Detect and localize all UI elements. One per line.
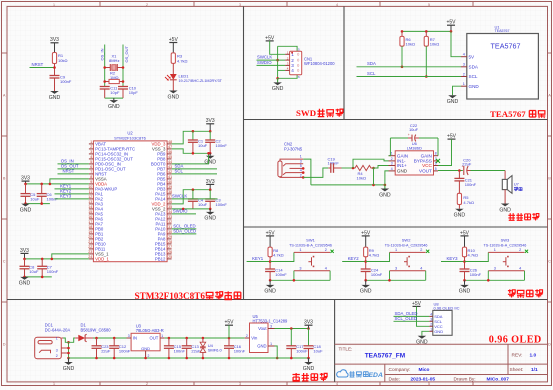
wire net OS_OUT (mcu) <box>58 164 89 169</box>
section title key circuit <box>508 289 543 297</box>
svg-text:3: 3 <box>270 324 272 328</box>
svg-text:22: 22 <box>88 245 92 249</box>
svg-text:34: 34 <box>168 210 172 214</box>
power 3V3 (reset) <box>50 37 59 52</box>
svg-text:KEY1: KEY1 <box>252 256 264 261</box>
svg-text:4: 4 <box>420 267 422 271</box>
net label OS_IN vertical <box>100 48 105 60</box>
power 3V3 (VDDA) <box>21 176 30 184</box>
wire net SDA_OLED (mcu) <box>172 229 197 234</box>
svg-text:+: + <box>462 164 464 168</box>
svg-text:33: 33 <box>168 215 172 219</box>
ground (KEY1) <box>264 280 276 294</box>
svg-text:Date:: Date: <box>389 376 400 382</box>
IC U3 78L05 <box>127 324 165 358</box>
svg-text:VCC: VCC <box>422 163 432 168</box>
svg-text:32: 32 <box>168 220 172 224</box>
section divider horizontal audio/keys <box>244 226 548 228</box>
wire net SWCLK <box>257 55 286 61</box>
svg-text:8MHz: 8MHz <box>109 58 119 63</box>
svg-text:25: 25 <box>168 255 172 259</box>
svg-text:GND: GND <box>257 344 266 349</box>
wire gain cap right leg <box>437 138 439 156</box>
svg-text:31: 31 <box>168 225 172 229</box>
wire 5V mid rail <box>165 337 245 340</box>
svg-text:NRST: NRST <box>63 169 75 174</box>
capacitor C6 100nF <box>37 184 59 204</box>
svg-text:3: 3 <box>300 160 302 164</box>
svg-text:5V: 5V <box>469 54 476 59</box>
svg-text:4.7kΩ: 4.7kΩ <box>273 253 284 258</box>
ground (OLED) <box>416 336 428 346</box>
svg-text:IN1+: IN1+ <box>397 163 407 168</box>
ground (KEY2) <box>360 280 372 294</box>
power +5V (LED) <box>169 37 179 53</box>
ground (VDDA) <box>20 204 32 214</box>
svg-text:2: 2 <box>420 248 422 252</box>
title block texts <box>339 347 539 383</box>
svg-text:20: 20 <box>88 235 92 239</box>
svg-text:2: 2 <box>90 145 92 149</box>
wire jack pin1 to bottom rail <box>303 159 311 185</box>
svg-text:2: 2 <box>246 334 248 338</box>
svg-text:PJ-307N5: PJ-307N5 <box>284 146 303 151</box>
svg-text:Vout: Vout <box>258 326 267 331</box>
wire C19 to R4 <box>342 167 354 169</box>
svg-text:47: 47 <box>168 145 172 149</box>
IC U6 LM386D <box>389 141 439 175</box>
svg-text:19-217/BHC-ZL1M2RY/3T: 19-217/BHC-ZL1M2RY/3T <box>179 79 223 83</box>
capacitor C24 100nF <box>361 268 383 281</box>
wire switch legs to gnd rail <box>269 271 330 282</box>
svg-text:SDA: SDA <box>367 61 376 66</box>
svg-text:21: 21 <box>88 240 92 244</box>
svg-text:48: 48 <box>168 140 172 144</box>
wire OLED gnd <box>422 331 429 336</box>
svg-text:100nF: 100nF <box>60 79 72 84</box>
svg-text:100nF: 100nF <box>47 269 59 274</box>
svg-text:100nF: 100nF <box>296 349 308 354</box>
svg-text:46: 46 <box>168 150 172 154</box>
wire pin1 to gnd (TEA) <box>453 86 462 95</box>
svg-text:8: 8 <box>435 152 437 156</box>
svg-text:100nF: 100nF <box>174 349 186 354</box>
ground (speaker) <box>499 204 511 214</box>
wire VDD_3 riser <box>172 130 212 144</box>
ground (KEY3) <box>459 280 471 294</box>
capacitor C23 22uF <box>92 338 111 358</box>
svg-text:1: 1 <box>270 342 272 346</box>
capacitor C13 22uF <box>182 338 201 358</box>
power 3V3 (VDD_2) <box>206 179 215 190</box>
svg-text:5: 5 <box>90 160 92 164</box>
switch SW2 TS-1103S <box>385 238 430 271</box>
svg-text:9: 9 <box>90 180 92 184</box>
svg-text:2: 2 <box>391 157 393 161</box>
wire DC jack gnd column <box>67 341 70 359</box>
speaker U7 <box>502 171 522 204</box>
svg-text:TEA5767: TEA5767 <box>490 109 526 119</box>
svg-text:7: 7 <box>90 170 92 174</box>
wire VDD_2 riser <box>172 188 212 204</box>
svg-text:B5819W_C8580: B5819W_C8580 <box>81 327 112 332</box>
wire +5V to CN1 pin1 <box>270 41 285 54</box>
power +5V (U6) <box>447 134 457 140</box>
svg-text:1: 1 <box>299 248 301 252</box>
svg-text:1: 1 <box>56 336 58 340</box>
wire net SCL (TEA) <box>357 71 462 77</box>
svg-text:D: D <box>548 342 551 346</box>
capacitor C12 100nF <box>109 338 131 358</box>
svg-text:SWD: SWD <box>296 108 316 118</box>
svg-text:GND: GND <box>168 94 180 100</box>
wire R7 to SCL <box>425 46 428 78</box>
svg-text:SDA_OLED: SDA_OLED <box>173 229 196 234</box>
svg-text:C: C <box>548 259 551 263</box>
svg-text:HT7533-1_C14289: HT7533-1_C14289 <box>253 318 289 323</box>
svg-text:4: 4 <box>300 169 302 173</box>
svg-text:4: 4 <box>430 312 432 316</box>
capacitor C2 100nF <box>205 131 227 153</box>
svg-text:2: 2 <box>300 173 302 177</box>
svg-text:GND: GND <box>141 346 150 351</box>
svg-text:SW2: SW2 <box>402 238 411 243</box>
svg-text:U7: U7 <box>514 182 520 187</box>
svg-text:3: 3 <box>56 349 58 353</box>
power +5V (OLED) <box>412 301 422 307</box>
wire audio bottom rail <box>311 184 386 187</box>
svg-text:10uF: 10uF <box>29 269 39 274</box>
svg-text:SMF6.0: SMF6.0 <box>208 348 223 353</box>
capacitor C21 100nF <box>454 171 476 194</box>
wire net KEY2 (mcu) <box>55 189 89 194</box>
svg-text:45: 45 <box>168 155 172 159</box>
wire net SCL (mcu) <box>172 169 217 174</box>
svg-text:1: 1 <box>391 152 393 156</box>
capacitor C9 100nF <box>50 74 72 91</box>
svg-text:GND: GND <box>434 329 443 334</box>
svg-text:GND: GND <box>49 95 61 101</box>
wire net SWDIO <box>257 60 286 66</box>
svg-text:3: 3 <box>463 63 465 67</box>
svg-text:3: 3 <box>128 334 130 338</box>
svg-text:SCL: SCL <box>367 71 376 76</box>
svg-text:SCL: SCL <box>469 74 478 79</box>
wire crystal right vertical <box>122 45 124 87</box>
svg-text:4: 4 <box>90 155 92 159</box>
diode D1 B5819W <box>75 323 111 342</box>
section title power circuit <box>293 373 328 381</box>
svg-text:100nF: 100nF <box>465 182 477 187</box>
svg-text:10kΩ: 10kΩ <box>406 41 415 46</box>
svg-text:SW3: SW3 <box>501 238 510 243</box>
svg-text:10uF: 10uF <box>198 202 208 207</box>
wire R4 node down <box>373 168 375 185</box>
ground (VDD_3 caps) <box>204 153 216 165</box>
svg-text:43: 43 <box>168 165 172 169</box>
section title STM32 minimal system <box>135 291 241 301</box>
svg-text:4.7kΩ: 4.7kΩ <box>369 253 380 258</box>
svg-text:TEA5767_FM: TEA5767_FM <box>365 353 405 360</box>
svg-text:18: 18 <box>88 225 92 229</box>
svg-text:EDA: EDA <box>369 372 383 379</box>
svg-text:SW1: SW1 <box>306 238 315 243</box>
svg-text:Vin: Vin <box>251 336 258 341</box>
capacitor C19 100nF <box>328 156 342 173</box>
svg-text:4.7kΩ: 4.7kΩ <box>463 200 474 205</box>
capacitor C11 10pF <box>100 86 120 99</box>
ground (VDD_2 caps) <box>204 209 216 222</box>
wire 3V3 rail to VDD_1 <box>23 258 89 261</box>
TVS U4 SMF6.0 <box>200 338 222 358</box>
power +5V (output) <box>224 320 234 338</box>
wire LED to gnd <box>172 80 174 91</box>
svg-text:GND: GND <box>447 99 459 105</box>
svg-text:4: 4 <box>336 3 338 7</box>
svg-text:10kΩ: 10kΩ <box>58 58 67 63</box>
ground (audio input) <box>379 185 391 198</box>
svg-text:28: 28 <box>168 240 172 244</box>
svg-text:4: 4 <box>325 267 327 271</box>
svg-text:GND: GND <box>499 207 511 213</box>
capacitor C16 100nF <box>224 338 246 358</box>
svg-text:10pF: 10pF <box>129 90 139 95</box>
svg-text:10uF: 10uF <box>313 349 323 354</box>
svg-text:TEA5767: TEA5767 <box>495 29 510 33</box>
svg-text:GND: GND <box>108 104 120 110</box>
power 3V3 (VDD_3) <box>206 118 215 131</box>
wire crystal bottom <box>105 97 123 99</box>
svg-text:GND: GND <box>303 366 315 372</box>
svg-text:39: 39 <box>168 185 172 189</box>
svg-text:10pF: 10pF <box>110 90 120 95</box>
section divider horizontal top <box>244 119 548 121</box>
svg-text:STM32F103C8T6: STM32F103C8T6 <box>114 135 147 140</box>
svg-text:VOUT: VOUT <box>419 169 432 174</box>
svg-text:SWDIO: SWDIO <box>173 209 188 214</box>
wire jack to D1 <box>63 338 75 342</box>
power +5V (TEA5767) <box>446 20 456 32</box>
IC U5 HT7533 <box>245 314 288 353</box>
power +5V (KEY2) <box>361 230 371 247</box>
svg-text:5: 5 <box>428 3 430 7</box>
svg-text:2: 2 <box>519 248 521 252</box>
svg-text:1: 1 <box>395 248 397 252</box>
svg-text:OS_OUT: OS_OUT <box>124 45 129 62</box>
svg-text:TEA5767: TEA5767 <box>491 42 521 51</box>
capacitor C14 100nF <box>265 268 287 281</box>
svg-text:10uF: 10uF <box>409 127 419 132</box>
wire +5V rail (TEA) <box>401 30 453 33</box>
section title TEA5767 module <box>490 109 545 119</box>
capacitor C26 100nF <box>460 268 482 281</box>
capacitor C1 10uF <box>188 131 208 153</box>
svg-text:KEY3: KEY3 <box>447 256 459 261</box>
IC U1 TEA5767 <box>461 24 538 99</box>
svg-text:100nF: 100nF <box>216 202 228 207</box>
power 3V3 (VDD_1) <box>20 248 29 259</box>
svg-text:4: 4 <box>291 68 294 73</box>
svg-text:36: 36 <box>168 200 172 204</box>
svg-text:REV:: REV: <box>512 352 523 358</box>
wire KEY2 to switch <box>364 252 389 269</box>
svg-text:+: + <box>408 133 410 137</box>
svg-text:1: 1 <box>463 82 465 86</box>
svg-text:30: 30 <box>168 230 172 234</box>
wire R3 to LED <box>172 63 174 74</box>
power +5V (KEY3) <box>460 230 470 247</box>
svg-text:10kΩ: 10kΩ <box>430 41 439 46</box>
resistor R1 10k <box>52 53 67 64</box>
svg-text:1: 1 <box>300 155 302 159</box>
svg-text:MICo_007: MICo_007 <box>487 376 510 382</box>
IC U8 0.96 OLED IIC <box>429 301 459 335</box>
svg-text:GND: GND <box>19 281 31 287</box>
section title SWD <box>296 108 343 118</box>
svg-text:GND: GND <box>469 84 480 89</box>
section divider title-block vertical <box>334 300 336 382</box>
svg-text:3: 3 <box>494 267 496 271</box>
wire net KEY1 (mcu) <box>55 184 89 189</box>
svg-text:100nF: 100nF <box>470 272 482 277</box>
wire R4 left to IN1- top jog <box>353 159 389 168</box>
svg-text:1: 1 <box>90 140 92 144</box>
svg-text:3: 3 <box>90 150 92 154</box>
svg-text:15: 15 <box>88 210 92 214</box>
section divider SWD/TEA vertical <box>343 6 345 119</box>
svg-text:GND: GND <box>454 213 466 219</box>
wire switch legs to gnd rail <box>364 271 425 282</box>
node R1/C9 junction <box>53 64 56 76</box>
wire SWD vertical rail <box>276 46 279 79</box>
svg-text:2023-01-05: 2023-01-05 <box>411 376 436 382</box>
svg-text:OS_IN: OS_IN <box>100 48 105 60</box>
svg-text:19: 19 <box>88 230 92 234</box>
svg-text:KEY2: KEY2 <box>348 256 360 261</box>
wire net SWCLK (mcu) <box>172 194 218 199</box>
svg-text:40: 40 <box>168 180 172 184</box>
wire C20 to speaker <box>471 170 506 172</box>
wire gnd bottom rail <box>69 357 310 360</box>
svg-text:11: 11 <box>89 190 93 194</box>
svg-text:TITLE:: TITLE: <box>339 347 353 352</box>
ground (crystal) <box>108 98 120 110</box>
svg-text:SWCLK: SWCLK <box>257 55 272 60</box>
svg-text:10uF: 10uF <box>30 197 40 202</box>
svg-text:29: 29 <box>168 235 172 239</box>
resistor R2 1M <box>103 71 124 84</box>
svg-text:27: 27 <box>168 245 172 249</box>
section divider vertical main <box>243 6 245 299</box>
svg-text:2: 2 <box>463 72 465 76</box>
ground (LED) <box>168 91 180 101</box>
wire net SDA (mcu) <box>172 164 217 169</box>
resistor R8 4.7k <box>268 247 284 257</box>
section title audio amp <box>508 213 539 220</box>
ground (TEA5767) <box>447 95 459 105</box>
capacitor C15 100nF <box>164 338 186 358</box>
svg-text:SWDIO: SWDIO <box>257 60 272 65</box>
wire net KEY3 (mcu) <box>55 194 89 199</box>
IC U2 STM32F103C8T6 <box>88 131 172 262</box>
wire U5 gnd <box>275 346 279 359</box>
svg-text:Sheet:: Sheet: <box>510 367 524 373</box>
svg-text:14: 14 <box>88 205 92 209</box>
svg-text:100nF: 100nF <box>119 349 131 354</box>
svg-text:44: 44 <box>168 160 172 164</box>
svg-text:SDA: SDA <box>469 64 479 69</box>
svg-text:TS-1103S-B-A_C2929546: TS-1103S-B-A_C2929546 <box>385 243 428 247</box>
wire KEY1 to switch <box>269 252 294 269</box>
svg-text:6: 6 <box>90 165 92 169</box>
svg-text:100nF: 100nF <box>371 272 383 277</box>
wire U6 gnd pin <box>385 171 389 185</box>
svg-text:NRST: NRST <box>32 62 44 67</box>
capacitor C8 10uF <box>20 259 39 277</box>
svg-text:1: 1 <box>494 248 496 252</box>
svg-text:D: D <box>3 342 6 346</box>
svg-text:GND: GND <box>459 289 471 295</box>
svg-text:4: 4 <box>391 167 393 171</box>
resistor R3 4.7k <box>171 53 187 64</box>
wire 3V3 rail <box>275 327 310 330</box>
svg-text:78L05G-AB3-R: 78L05G-AB3-R <box>136 328 164 333</box>
wire +5V to pin4 <box>451 31 461 56</box>
wire +5V to OLED VCC <box>417 306 430 326</box>
wire VDDA caps gnd rail <box>24 202 50 205</box>
svg-text:10uF: 10uF <box>198 143 208 148</box>
wire VSS_3 to gnd rail <box>172 149 212 155</box>
DC jack DC1 DC-644A-20A <box>35 323 71 359</box>
svg-text:35: 35 <box>168 205 172 209</box>
svg-text:2: 2 <box>56 354 58 358</box>
svg-text:5: 5 <box>435 167 437 171</box>
section divider horizontal bottom <box>7 299 548 301</box>
svg-text:100nF: 100nF <box>216 143 228 148</box>
svg-text:STM32F103C8T6: STM32F103C8T6 <box>135 291 206 301</box>
power +5V (KEY1) <box>266 230 276 247</box>
svg-text:0.96 OLED IIC: 0.96 OLED IIC <box>434 306 460 311</box>
svg-text:13: 13 <box>88 200 92 204</box>
capacitor C20 22uF <box>462 158 472 175</box>
ground (SWD) <box>272 78 284 92</box>
svg-text:3: 3 <box>395 267 397 271</box>
wire R4 node to IN1+ <box>373 166 389 169</box>
svg-text:1/1: 1/1 <box>531 367 538 373</box>
wire VSSA jog <box>49 179 89 185</box>
svg-text:GND: GND <box>204 160 216 166</box>
wire +5V top rail <box>93 337 127 340</box>
svg-text:GND: GND <box>264 289 276 295</box>
svg-text:SCL: SCL <box>175 169 184 174</box>
capacitor C3 100nF <box>205 190 227 209</box>
svg-text:1: 1 <box>430 327 432 331</box>
svg-text:Drawn By:: Drawn By: <box>454 376 476 382</box>
wire SWD top to connector <box>278 46 298 51</box>
svg-text:GND: GND <box>63 366 75 372</box>
capacitor C5 10uF <box>21 184 40 204</box>
svg-text:2: 2 <box>291 58 294 63</box>
svg-text:4: 4 <box>519 267 521 271</box>
ground (VDD_1) <box>19 277 31 287</box>
power +5V (SWD) <box>265 35 275 41</box>
svg-text:GND: GND <box>360 289 372 295</box>
svg-text:GND: GND <box>379 192 391 198</box>
net label OS_OUT vertical <box>124 45 129 62</box>
capacitor C22 10uF (gain) <box>390 123 438 141</box>
wire net SWDIO (mcu) <box>172 209 196 214</box>
switch SW3 TS-1103S <box>484 238 529 271</box>
